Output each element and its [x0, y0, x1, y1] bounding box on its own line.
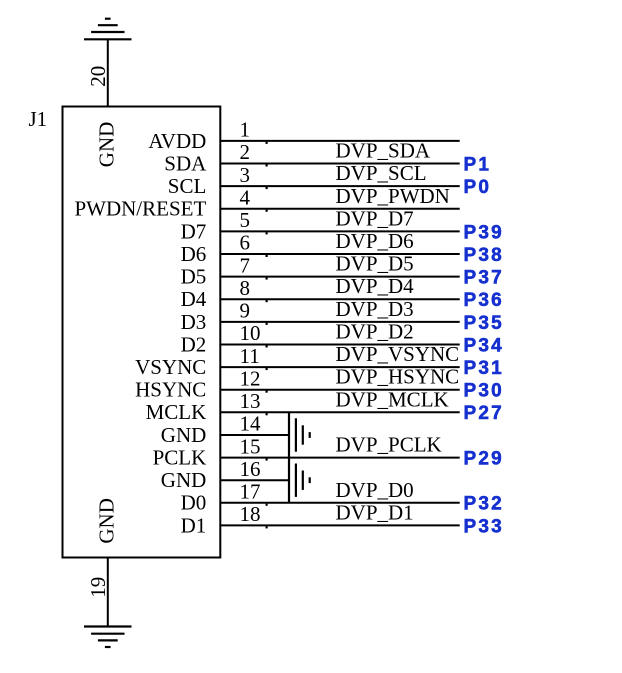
wire pin 11 [220, 366, 459, 368]
pin 2 end tick [266, 164, 268, 166]
svg-text:P30: P30 [464, 381, 504, 402]
svg-text:P32: P32 [464, 494, 504, 515]
pin 1 end tick [266, 142, 268, 144]
svg-text:D6: D6 [181, 242, 207, 266]
wire pin 20 (top GND stem) [107, 39, 109, 106]
svg-text:3: 3 [240, 163, 251, 187]
svg-text:P33: P33 [464, 516, 504, 537]
svg-text:13: 13 [240, 389, 261, 413]
wire pin 16 [220, 479, 289, 481]
svg-text:HSYNC: HSYNC [135, 378, 206, 402]
pin 13 end tick [266, 413, 268, 415]
svg-text:P37: P37 [464, 268, 504, 289]
svg-text:15: 15 [240, 434, 261, 458]
svg-text:DVP_D2: DVP_D2 [336, 320, 414, 344]
svg-text:10: 10 [240, 321, 261, 345]
wire pin 4 [220, 208, 459, 210]
wire pin 17 [220, 502, 459, 504]
svg-text:P0: P0 [464, 177, 492, 198]
svg-text:DVP_SDA: DVP_SDA [336, 139, 431, 163]
svg-text:GND: GND [161, 468, 207, 492]
wire pin 8 [220, 298, 459, 300]
svg-text:VSYNC: VSYNC [135, 355, 206, 379]
pin 5 end tick [266, 232, 268, 234]
pin 6 end tick [266, 255, 268, 257]
pin 15 end tick [266, 458, 268, 460]
svg-text:D3: D3 [181, 310, 207, 334]
svg-text:DVP_D6: DVP_D6 [336, 229, 414, 253]
pin 3 end tick [266, 187, 268, 189]
svg-text:1: 1 [240, 118, 251, 142]
wire pin 19 (bottom GND stem) [107, 558, 109, 627]
svg-text:6: 6 [240, 231, 251, 255]
pin 8 end tick [266, 300, 268, 302]
svg-text:12: 12 [240, 366, 261, 390]
svg-text:P38: P38 [464, 245, 504, 266]
wire pin 3 [220, 185, 459, 187]
svg-text:D5: D5 [181, 265, 207, 289]
svg-text:DVP_PWDN: DVP_PWDN [336, 184, 450, 208]
svg-text:DVP_D3: DVP_D3 [336, 297, 414, 321]
svg-text:D4: D4 [181, 287, 207, 311]
svg-text:P36: P36 [464, 290, 504, 311]
svg-text:SCL: SCL [168, 174, 207, 198]
pin 7 end tick [266, 277, 268, 279]
svg-text:PCLK: PCLK [153, 446, 207, 470]
svg-text:8: 8 [240, 276, 251, 300]
svg-text:DVP_D4: DVP_D4 [336, 274, 415, 298]
wire pin 1 [220, 140, 459, 142]
svg-text:D1: D1 [181, 513, 207, 537]
svg-text:GND: GND [161, 423, 207, 447]
svg-text:P29: P29 [464, 449, 504, 470]
wire pin 6 [220, 253, 459, 255]
ground (top, at pin 20) [84, 19, 132, 40]
svg-text:DVP_MCLK: DVP_MCLK [336, 387, 449, 411]
svg-text:J1: J1 [29, 107, 48, 131]
pin 4 end tick [266, 210, 268, 212]
wire pin 18 [220, 524, 459, 526]
svg-text:11: 11 [240, 344, 260, 368]
svg-text:20: 20 [86, 66, 110, 87]
svg-text:P34: P34 [464, 335, 504, 356]
svg-text:DVP_HSYNC: DVP_HSYNC [336, 365, 460, 389]
wire pin 5 [220, 230, 459, 232]
connector J1 body [63, 107, 221, 558]
svg-text:AVDD: AVDD [148, 129, 206, 153]
pin 12 end tick [266, 391, 268, 393]
ground (bottom, at pin 19) [84, 627, 132, 648]
wire pin 7 [220, 276, 459, 278]
svg-text:MCLK: MCLK [146, 400, 207, 424]
svg-text:5: 5 [240, 208, 251, 232]
wire pin 2 [220, 163, 459, 165]
svg-text:14: 14 [240, 412, 262, 436]
svg-text:DVP_PCLK: DVP_PCLK [336, 433, 442, 457]
wire pin 12 [220, 389, 459, 391]
svg-text:2: 2 [240, 140, 251, 164]
svg-text:PWDN/RESET: PWDN/RESET [74, 197, 206, 221]
svg-text:9: 9 [240, 299, 251, 323]
ground (rotated, at pin 16) [289, 458, 310, 503]
svg-text:DVP_D7: DVP_D7 [336, 206, 414, 230]
svg-text:D7: D7 [181, 219, 207, 243]
pin 11 end tick [266, 368, 268, 370]
svg-text:DVP_VSYNC: DVP_VSYNC [336, 342, 460, 366]
svg-text:GND: GND [95, 122, 119, 168]
wire pin 9 [220, 321, 459, 323]
svg-text:P35: P35 [464, 313, 504, 334]
ground (rotated, at pin 14) [289, 412, 310, 457]
svg-text:DVP_D1: DVP_D1 [336, 500, 414, 524]
svg-text:DVP_SCL: DVP_SCL [336, 161, 427, 185]
svg-text:P39: P39 [464, 222, 504, 243]
pin 10 end tick [266, 345, 268, 347]
pin 9 end tick [266, 323, 268, 325]
svg-text:SDA: SDA [164, 151, 207, 175]
svg-text:16: 16 [240, 457, 261, 481]
svg-text:DVP_D0: DVP_D0 [336, 478, 414, 502]
svg-text:7: 7 [240, 253, 251, 277]
svg-text:P31: P31 [464, 358, 504, 379]
wire pin 13 [220, 411, 459, 413]
wire pin 15 [220, 457, 459, 459]
svg-text:P27: P27 [464, 403, 504, 424]
svg-text:GND: GND [95, 498, 119, 544]
pin 17 end tick [266, 504, 268, 506]
svg-text:P1: P1 [464, 154, 492, 175]
svg-text:19: 19 [86, 577, 110, 598]
wire pin 10 [220, 344, 459, 346]
svg-text:DVP_D5: DVP_D5 [336, 252, 414, 276]
pin 18 end tick [266, 526, 268, 528]
svg-text:18: 18 [240, 502, 261, 526]
wire pin 14 [220, 434, 289, 436]
svg-text:4: 4 [240, 186, 251, 210]
svg-text:D2: D2 [181, 332, 207, 356]
svg-text:17: 17 [240, 480, 261, 504]
svg-text:D0: D0 [181, 491, 207, 515]
